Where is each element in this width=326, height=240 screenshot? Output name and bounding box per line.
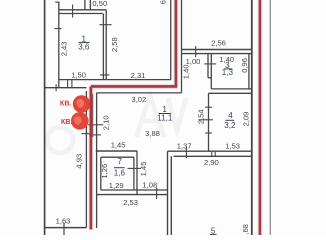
svg-text:1,3: 1,3 bbox=[222, 68, 234, 77]
wire bath left step bbox=[208, 77, 211, 79]
wire apartment outer black face right top bbox=[181, 0, 183, 93]
svg-text:КВ.: КВ. bbox=[61, 119, 72, 126]
wire bath left wall outer bbox=[207, 54, 209, 78]
svg-text:1,40: 1,40 bbox=[181, 64, 190, 79]
tick dim 4,93 bbox=[82, 133, 91, 135]
svg-text:3,88: 3,88 bbox=[145, 129, 160, 138]
wire mid wall upper face left segment (room7 top outer) bbox=[96, 150, 137, 152]
wire room1 top wall inner face bbox=[59, 13, 103, 15]
wire hall right inner face bbox=[170, 0, 172, 80]
tick top wall bbox=[72, 5, 74, 18]
svg-text:3,02: 3,02 bbox=[131, 95, 146, 104]
wire room4 left wall bbox=[208, 93, 210, 151]
wire bath bottom face1 bbox=[211, 88, 252, 90]
red apartment boundary right side bbox=[91, 0, 176, 86]
wire bottom wall outer face bbox=[97, 194, 168, 196]
wire upper wall stub left bbox=[84, 0, 86, 10]
wire hall left wall face2 bbox=[105, 10, 107, 80]
red halo bbox=[91, 0, 260, 235]
svg-text:2,53: 2,53 bbox=[123, 198, 138, 207]
svg-text:1,6: 1,6 bbox=[114, 169, 126, 178]
tick bottom left wall bbox=[63, 223, 65, 235]
svg-text:0,50: 0,50 bbox=[92, 0, 107, 8]
svg-text:1,50: 1,50 bbox=[71, 70, 86, 79]
red boundary building right bbox=[259, 0, 262, 235]
svg-text:1,63: 1,63 bbox=[56, 217, 71, 226]
svg-text:7: 7 bbox=[118, 157, 123, 166]
bath label bbox=[222, 61, 234, 77]
svg-text:КВ.: КВ. bbox=[60, 101, 71, 108]
wire room7 right outer wall bbox=[136, 151, 138, 195]
tick bottom wall bbox=[156, 188, 158, 200]
wire hall left wall face1 bbox=[102, 14, 104, 80]
svg-text:1,53: 1,53 bbox=[225, 141, 240, 150]
wire room7/corridor bottom inner face bbox=[101, 189, 168, 191]
svg-text:2,09: 2,09 bbox=[242, 112, 251, 127]
tick room1 top bbox=[55, 1, 59, 3]
tick stair wall bbox=[55, 84, 57, 91]
wire room7 inner top bbox=[101, 156, 134, 158]
wire room1 top wall outer face bbox=[59, 9, 106, 11]
leader tick room7 bbox=[128, 167, 141, 169]
wire upper wall stub right bbox=[89, 0, 91, 10]
svg-text:4: 4 bbox=[228, 111, 233, 120]
tick dim 2,43 upper bbox=[54, 28, 61, 30]
room5 label bbox=[210, 227, 217, 236]
tick 1,37 bbox=[185, 147, 187, 158]
svg-text:2,90: 2,90 bbox=[204, 158, 219, 167]
dim line 2,10 bbox=[92, 94, 94, 137]
room4 label bbox=[224, 111, 236, 130]
KV circle 2 smudge bbox=[74, 116, 82, 125]
svg-text:2,56: 2,56 bbox=[211, 39, 226, 48]
tick 2,10 upper bbox=[88, 124, 103, 126]
wire room1 bottom wall / hall bottom face bbox=[59, 79, 171, 81]
room1 label bbox=[78, 35, 90, 52]
wire kitchen bottom wall face2 bbox=[182, 53, 252, 55]
door jamb left below room1 bbox=[67, 80, 69, 88]
tick 2,10 lower bbox=[89, 134, 101, 136]
wire room7 inner right bbox=[133, 157, 135, 190]
wire mid wall upper face right segment bbox=[168, 150, 252, 152]
KV circle 1 smudge bbox=[77, 99, 85, 108]
svg-text:11,1: 11,1 bbox=[157, 113, 173, 122]
svg-text:0,96: 0,96 bbox=[240, 58, 249, 73]
wire corridor right wall face1 bbox=[167, 151, 169, 235]
wire left outer frame wall bbox=[44, 0, 46, 235]
tick dim 2,58 top bbox=[99, 24, 111, 26]
tick dim 2,58 bottom bbox=[100, 74, 110, 76]
wire apartment inner face upper (living room left wall) bbox=[96, 93, 98, 228]
step vertical a bbox=[211, 152, 213, 157]
svg-text:2,10: 2,10 bbox=[102, 115, 111, 130]
tick on kitchen wall bbox=[195, 46, 197, 57]
svg-text:1,29: 1,29 bbox=[109, 181, 124, 190]
svg-text:2,58: 2,58 bbox=[110, 37, 119, 52]
svg-text:3,2: 3,2 bbox=[224, 121, 236, 130]
wire stair wall bbox=[45, 87, 87, 89]
step vertical b bbox=[214, 152, 216, 157]
wire right outer gray line bbox=[269, 0, 271, 235]
svg-text:1,26: 1,26 bbox=[100, 164, 109, 179]
wire corridor right wall face2 bbox=[170, 156, 172, 235]
svg-text:3,6: 3,6 bbox=[78, 42, 90, 51]
wire bath right inner face bbox=[248, 54, 250, 89]
watermark bbox=[47, 96, 186, 153]
wire bath bottom face2 / room4 top bbox=[209, 92, 252, 94]
wire room1 left wall bbox=[58, 2, 60, 88]
red apartment boundary left vertical bbox=[90, 86, 93, 229]
wire bath left wall inner bbox=[210, 54, 212, 89]
svg-text:2,31: 2,31 bbox=[131, 71, 146, 80]
svg-text:2,68: 2,68 bbox=[241, 224, 250, 235]
svg-text:2,43: 2,43 bbox=[60, 42, 69, 57]
svg-text:5: 5 bbox=[211, 227, 216, 235]
wire bottom left wall bbox=[45, 227, 87, 229]
wire red wall outer black face left bbox=[85, 91, 87, 228]
tick bath left bbox=[204, 63, 216, 65]
wire right building wall bbox=[251, 0, 253, 235]
living room label bbox=[157, 105, 173, 123]
svg-text:1,08: 1,08 bbox=[142, 180, 157, 189]
room7 label bbox=[114, 157, 126, 178]
svg-text:1,37: 1,37 bbox=[177, 142, 192, 151]
svg-text:1,45: 1,45 bbox=[111, 141, 126, 150]
svg-text:2,54: 2,54 bbox=[196, 109, 205, 124]
red wall over circles bbox=[90, 95, 92, 130]
tick room4 lower bbox=[205, 132, 212, 134]
wire room7 inner left bbox=[100, 157, 102, 190]
KV circle 1 bbox=[73, 95, 91, 113]
KV circle 2 bbox=[71, 112, 89, 130]
tick room4 upper bbox=[205, 106, 212, 108]
svg-text:6,: 6, bbox=[158, 0, 167, 4]
wire living room top face bbox=[97, 92, 182, 94]
svg-text:4,93: 4,93 bbox=[74, 154, 83, 169]
svg-text:1,45: 1,45 bbox=[139, 162, 148, 177]
wire room5 top inner face bbox=[174, 155, 252, 157]
wire kitchen bottom wall face1 bbox=[182, 49, 252, 51]
tick room4 dim long bbox=[198, 119, 213, 121]
door jamb right below room1 bbox=[71, 80, 73, 88]
